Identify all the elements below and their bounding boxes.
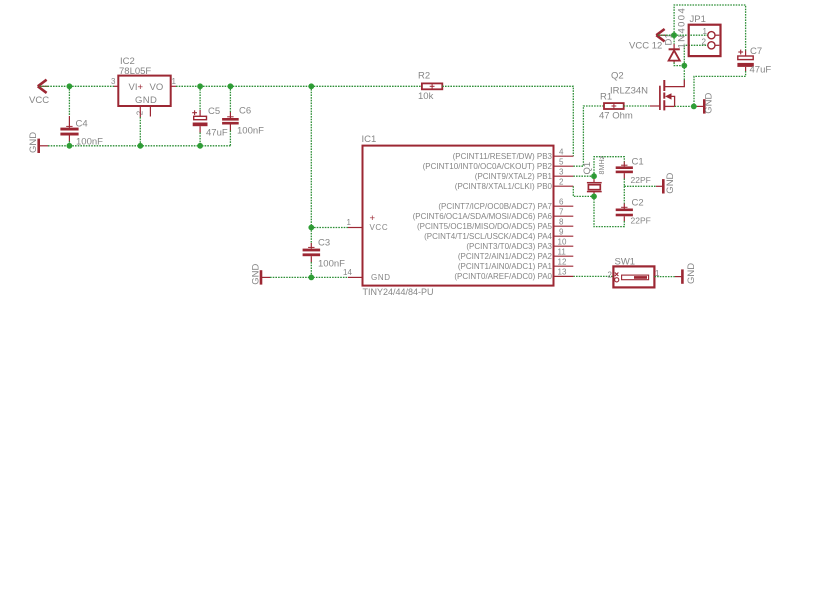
pin stub 5 (PB2) (554, 165, 573, 167)
triangle (669, 51, 680, 61)
wire VCC12 up and over to C7 (674, 5, 746, 51)
wire C1 bottom to gnd rail (623, 179, 625, 187)
svg-text:2: 2 (702, 37, 707, 46)
ground pin stub (crystal) (656, 185, 662, 187)
IC2 NC pin stub (149, 106, 151, 117)
wire R2 to RESET pin4 (442, 86, 573, 156)
pin stub IC2 pin 3 (114, 85, 118, 87)
Q2 gate pin stub (650, 105, 660, 107)
svg-text:10k: 10k (418, 91, 434, 102)
channel segment mid (663, 93, 665, 99)
svg-text:47 Ohm: 47 Ohm (599, 111, 633, 122)
supply symbol VCC (top left arrow) (38, 80, 47, 93)
svg-text:(PCINT6/OC1A/SDA/MOSI/ADC6) PA: (PCINT6/OC1A/SDA/MOSI/ADC6) PA6 (413, 212, 553, 221)
node junction C5/rail (197, 83, 203, 89)
svg-text:(PCINT11/RESET/DW) PB3: (PCINT11/RESET/DW) PB3 (453, 152, 553, 161)
svg-text:47uF: 47uF (206, 128, 228, 139)
pin stub 8 (PA5) (554, 225, 573, 227)
source lead (664, 105, 674, 107)
contact circle (615, 278, 619, 282)
pin stub 7 (PA6) (554, 215, 573, 217)
pin stub 13 (PA0) (554, 275, 573, 277)
capacitor C5 (polarized) (193, 116, 208, 126)
node junction VCC12 (671, 32, 677, 38)
svg-text:GND: GND (251, 264, 262, 285)
capacitor C6 pin stub (229, 112, 231, 118)
wire C4 to GND rail (68, 141, 70, 146)
pin stub 10 (PA3) (554, 245, 573, 247)
svg-text:3: 3 (111, 77, 116, 86)
supply symbol VCC 12 (arrow) (656, 29, 664, 41)
switch SW1 (613, 266, 654, 287)
JP1 pin 2 circle (708, 42, 715, 49)
wire C6 to rail corner (229, 131, 231, 146)
svg-text:+: + (138, 82, 144, 93)
svg-text:2: 2 (559, 178, 564, 187)
node junction C5/rail (197, 143, 203, 149)
ground pin stub (bottom left) (262, 276, 270, 278)
resistor R1 (604, 103, 624, 109)
IC2 output pin stub (171, 85, 176, 87)
plate top (587, 182, 602, 184)
wire C7 to source junction (694, 71, 746, 106)
capacitor C2 (616, 207, 633, 216)
node junction VCC/C4 (67, 83, 73, 89)
actuator fill (634, 276, 647, 279)
plus mark C5 (192, 110, 197, 115)
ground GND (bottom left) (260, 270, 263, 284)
svg-text:IRLZ34N: IRLZ34N (610, 86, 648, 97)
svg-text:IC1: IC1 (362, 134, 377, 145)
wire VCC12 arrow to JP1 pin1 (658, 34, 708, 36)
svg-text:SW1: SW1 (615, 257, 636, 268)
channel segment bottom (663, 100, 665, 110)
IC1 right pin function labels (413, 152, 553, 281)
svg-text:47uF: 47uF (750, 65, 772, 76)
svg-text:GND: GND (371, 273, 391, 282)
svg-text:(PCINT9/XTAL2) PB1: (PCINT9/XTAL2) PB1 (475, 172, 553, 181)
svg-text:GND: GND (704, 93, 715, 114)
wire C3 to GND rail (310, 262, 312, 277)
ground pin stub (top left) (40, 145, 48, 147)
wire C2 top (623, 186, 625, 203)
ground GND (top left) (37, 139, 40, 153)
svg-text:2: 2 (608, 271, 613, 280)
node junction C6/rail (228, 83, 234, 89)
svg-text:VCC 12: VCC 12 (629, 41, 662, 52)
wire C5 branch top (199, 86, 201, 110)
wire R1 to Q2 gate (624, 105, 650, 107)
svg-text:100nF: 100nF (237, 126, 264, 137)
body (588, 185, 600, 190)
IC1 right pin numbers (558, 148, 567, 277)
IC2 GND pin stub (139, 106, 141, 117)
svg-text:C2: C2 (632, 198, 644, 209)
capacitor C7 pin stub bottom (745, 67, 747, 71)
node junction C4/GND (67, 143, 73, 149)
node junction IC2-GND/rail (137, 143, 143, 149)
wire junction to JP1 pin2 (684, 45, 708, 65)
wire IC2 GND to rail (139, 117, 141, 146)
svg-text:VO: VO (150, 82, 164, 93)
IC1 right pin stubs (554, 166, 573, 276)
capacitor C3 (303, 247, 321, 256)
svg-text:(PCINT3/T0/ADC3) PA3: (PCINT3/T0/ADC3) PA3 (466, 242, 552, 251)
wire diode top (673, 35, 675, 44)
svg-text:(PCINT10/INT0/OC0A/CKOUT) PB2: (PCINT10/INT0/OC0A/CKOUT) PB2 (423, 162, 553, 171)
wire crystal top pin (593, 176, 595, 179)
IC1 pin 14 stub (348, 276, 363, 278)
svg-text:11: 11 (558, 248, 567, 257)
svg-text:1N4004: 1N4004 (677, 7, 688, 49)
ground GND (at Q2 source) (703, 99, 706, 113)
channel segment top (663, 80, 665, 91)
capacitor C4 pin stub bottom (68, 136, 70, 142)
svg-text:C7: C7 (750, 46, 762, 57)
capacitor C6 pin stub bottom (229, 125, 231, 131)
svg-text:R2: R2 (418, 71, 430, 82)
svg-text:(PCINT2/AIN1/ADC2) PA2: (PCINT2/AIN1/ADC2) PA2 (458, 252, 553, 261)
wire pin3 to crystal top junction (573, 175, 594, 177)
svg-text:10: 10 (558, 238, 567, 247)
svg-text:8: 8 (559, 218, 564, 227)
svg-text:3: 3 (559, 168, 564, 177)
pin top (593, 179, 595, 183)
wire junction to IC2 VI pin (69, 85, 114, 87)
wire source to GND (675, 105, 697, 107)
svg-text:6: 6 (559, 198, 564, 207)
wire C6 branch top (229, 86, 231, 112)
contact cross (615, 273, 619, 277)
svg-text:TINY24/44/84-PU: TINY24/44/84-PU (363, 287, 434, 297)
wire pin5 to R1 (573, 106, 604, 166)
svg-text:(PCINT4/T1/SCL/USCK/ADC4) PA4: (PCINT4/T1/SCL/USCK/ADC4) PA4 (424, 232, 552, 241)
svg-text:C6: C6 (239, 106, 251, 117)
JP1 pin 1 circle (708, 32, 715, 39)
node junction C3/GND rail (308, 275, 314, 281)
svg-text:4: 4 (559, 148, 564, 157)
svg-text:Q1: Q1 (582, 162, 593, 175)
wire crystal bottom pin (593, 195, 595, 196)
wire C2 bottom to crystal bottom junction (594, 196, 624, 226)
svg-text:VCC: VCC (370, 223, 389, 232)
svg-text:22PF: 22PF (631, 216, 651, 226)
svg-text:GND: GND (28, 132, 39, 153)
node junction C3-IC1/rail (308, 83, 314, 89)
plus mark R2 origin (430, 84, 435, 89)
drain lead (664, 80, 684, 87)
crystal Q1 (587, 179, 602, 195)
ground GND (crystal) (662, 179, 665, 193)
capacitor C7 pin stub top (745, 51, 747, 57)
actuator outline (622, 275, 649, 280)
cathode bar (669, 48, 680, 50)
pin stub 11 (PA2) (554, 255, 573, 257)
svg-text:C5: C5 (208, 106, 220, 117)
JP1 pin 1 tail (715, 34, 719, 36)
wire crystal top to C1 (594, 157, 624, 177)
svg-text:8MHz: 8MHz (597, 155, 606, 174)
pin stub 2 (PB0) (554, 185, 573, 187)
supply pin stub VCC (38, 85, 48, 87)
diode D1 1N4004 (669, 44, 680, 63)
svg-text:1: 1 (703, 27, 708, 36)
cathode pin (673, 44, 675, 49)
svg-text:(PCINT7/ICP/OC0B/ADC7) PA7: (PCINT7/ICP/OC0B/ADC7) PA7 (438, 202, 552, 211)
capacitor C3 pin stub bottom (310, 256, 312, 262)
box (613, 266, 654, 287)
plate bottom (587, 191, 602, 193)
svg-text:C3: C3 (318, 238, 330, 249)
transistor Q2 IRLZ34N (660, 80, 684, 110)
wire GND rail left (48, 145, 230, 147)
svg-text:13: 13 (558, 268, 567, 277)
wire pin13 to SW1 (573, 275, 613, 277)
wire VCC vertical to IC1/C3 (310, 86, 312, 227)
capacitor C1 pin stub bottom (623, 173, 625, 178)
capacitor C6 (222, 117, 239, 125)
wire VCC arrow to junction (40, 85, 70, 87)
capacitor C7 (polarized) (737, 56, 753, 67)
capacitor C1 pin stub top (623, 162, 625, 167)
connector JP1 (689, 25, 721, 56)
IC1 pin 1 stub (348, 227, 363, 229)
svg-text:VCC: VCC (29, 95, 49, 106)
capacitor C2 pin stub top (623, 204, 625, 209)
node junction drain/diode/JP1-2 (681, 63, 687, 69)
capacitor C5 pin stub (199, 110, 201, 116)
svg-text:78L05F: 78L05F (119, 66, 151, 77)
svg-text:12: 12 (558, 258, 567, 267)
IC1 pin 4 stub (554, 155, 573, 157)
node junction crystal top (591, 173, 597, 179)
pin stub 6 (PA7) (554, 205, 573, 207)
svg-text:(PCINT1/AIN0/ADC1) PA1: (PCINT1/AIN0/ADC1) PA1 (458, 262, 553, 271)
body connection (668, 96, 675, 106)
wire diode bottom to junction (674, 63, 684, 66)
svg-text:(PCINT8/XTAL1/CLKI) PB0: (PCINT8/XTAL1/CLKI) PB0 (455, 182, 553, 191)
svg-text:7: 7 (559, 208, 564, 217)
pin bottom (593, 192, 595, 195)
ground GND (SW1) (681, 269, 684, 283)
ground pin stub (Q2) (697, 105, 703, 107)
ground pin stub (SW1) (675, 276, 681, 278)
capacitor C3 pin stub (310, 243, 312, 249)
capacitor C1 (616, 165, 633, 173)
capacitor C4 (60, 126, 78, 135)
wire junction down to C4 (68, 86, 70, 116)
svg-text:GND: GND (135, 95, 157, 106)
node junction C3/IC1 pin1 (308, 225, 314, 231)
plus mark R1 origin (612, 104, 617, 109)
body arrow head (665, 93, 672, 99)
svg-text:JP1: JP1 (690, 14, 706, 25)
supply pin stub VCC12 (657, 34, 667, 36)
svg-text:1: 1 (172, 77, 177, 86)
wire C5 to rail (199, 133, 201, 146)
svg-text:VI: VI (129, 82, 138, 93)
IC1 ATtiny box (363, 146, 554, 286)
svg-text:9: 9 (559, 228, 564, 237)
JP1 pin 2 tail (715, 44, 719, 46)
wire pin2 to crystal bottom junction (573, 186, 594, 196)
svg-text:GND: GND (686, 263, 697, 284)
svg-text:22PF: 22PF (631, 175, 651, 185)
capacitor C5 pin stub bottom (199, 126, 201, 132)
wire GND rail to IC1 pin14 (270, 276, 348, 278)
svg-text:14: 14 (343, 268, 352, 277)
svg-text:(PCINT0/AREF/ADC0) PA0: (PCINT0/AREF/ADC0) PA0 (454, 272, 552, 281)
node junction crystal bottom (591, 194, 597, 200)
wire drain up to diode junction (683, 66, 685, 80)
svg-text:1: 1 (347, 218, 352, 227)
gate plate (659, 86, 661, 110)
svg-text:GND: GND (665, 172, 676, 193)
svg-text:(PCINT5/OC1B/MISO/DO/ADC5) PA5: (PCINT5/OC1B/MISO/DO/ADC5) PA5 (417, 222, 553, 231)
plus mark C7 (738, 50, 743, 55)
wire C3 branch (310, 228, 312, 244)
svg-text:C1: C1 (632, 157, 644, 168)
pin stub 9 (PA4) (554, 235, 573, 237)
capacitor C4 pin stub top (68, 116, 70, 128)
pin stub 3 (PB1) (554, 175, 573, 177)
svg-text:C4: C4 (76, 119, 88, 130)
anode pin (673, 61, 675, 63)
wire to IC1 VCC pin (311, 227, 348, 229)
svg-text:5: 5 (559, 158, 564, 167)
pin stub 12 (PA1) (554, 265, 573, 267)
capacitor C2 pin stub bottom (623, 216, 625, 221)
IC2 78L05 regulator box (118, 76, 170, 106)
resistor R2 (422, 83, 442, 89)
wire 5V rail (IC2 out to R2) (176, 85, 422, 87)
svg-text:100nF: 100nF (318, 259, 345, 270)
wire SW1 to GND (654, 276, 675, 278)
svg-text:Q2: Q2 (611, 71, 624, 82)
node junction source/C7/GND (691, 104, 697, 110)
wire crystal gnd rail (624, 185, 656, 187)
